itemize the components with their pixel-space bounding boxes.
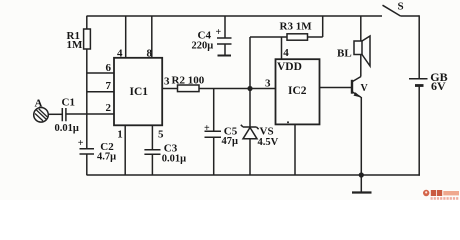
svg-text:R3 1M: R3 1M bbox=[280, 21, 313, 33]
speaker BL bbox=[354, 41, 362, 55]
logo watermark bbox=[423, 190, 459, 199]
svg-text:BL: BL bbox=[337, 48, 352, 60]
wire top rail bbox=[87, 15, 383, 17]
capacitor C3 bbox=[144, 150, 160, 155]
resistor R3 bbox=[287, 34, 308, 40]
wire IC1 pin4 bbox=[125, 16, 127, 58]
wire C5 top stub bbox=[213, 89, 215, 132]
wire zener branch vertical bbox=[249, 37, 251, 127]
wire emitter to ground rail bbox=[360, 97, 362, 175]
wire IC1 pin5 to C3 bbox=[151, 125, 153, 150]
wire speaker top to rail bbox=[360, 16, 362, 41]
IC U1 (IC1 box) bbox=[114, 58, 162, 126]
resistor R1 bbox=[84, 29, 91, 49]
svg-text:+: + bbox=[216, 27, 222, 38]
svg-text:5: 5 bbox=[158, 128, 164, 140]
wire R3 right to top rail bbox=[308, 16, 323, 37]
svg-text:VDD: VDD bbox=[277, 61, 302, 73]
svg-text:S: S bbox=[398, 1, 404, 13]
wire C4 top stub bbox=[224, 16, 226, 38]
svg-text:8: 8 bbox=[147, 47, 153, 59]
svg-text:IC1: IC1 bbox=[130, 86, 149, 98]
wire IC2 bottom pin to ground rail bbox=[294, 124, 296, 175]
switch S bbox=[383, 5, 420, 16]
svg-text:0.01μ: 0.01μ bbox=[55, 123, 79, 134]
wire IC1 pin8 bbox=[151, 16, 153, 58]
svg-text:6V: 6V bbox=[431, 79, 446, 93]
wire mic to C1 bbox=[49, 113, 62, 115]
microphone A bbox=[34, 108, 49, 123]
wire C2 bottom stub bbox=[86, 154, 88, 175]
node junction dot (R3/pin3) bbox=[247, 86, 252, 91]
wire C4 to ground symbol bbox=[224, 44, 226, 56]
battery GB plates bbox=[409, 78, 428, 80]
wire IC2 output to transistor base bbox=[320, 87, 353, 89]
wire IC1 pin1 to ground rail bbox=[124, 125, 126, 175]
svg-text:C1: C1 bbox=[62, 97, 75, 109]
wire right vertical (battery top) bbox=[418, 15, 420, 79]
wire R1 bottom bus to C2 bbox=[86, 49, 88, 149]
IC U2 (IC2 box) bbox=[276, 59, 320, 124]
ground (C4) bbox=[218, 55, 232, 57]
svg-text:47μ: 47μ bbox=[222, 136, 239, 147]
svg-text:1M: 1M bbox=[67, 39, 84, 51]
wire IC2 pin4 stub bbox=[281, 37, 283, 59]
capacitor C2 bbox=[80, 149, 95, 154]
wire IC1 pin3 to R2 bbox=[162, 88, 177, 90]
capacitor C1 bbox=[62, 108, 66, 121]
capacitor C5 bbox=[205, 131, 222, 137]
svg-text:+: + bbox=[78, 138, 84, 149]
ground (main) bbox=[360, 175, 362, 193]
svg-text:IC2: IC2 bbox=[288, 85, 307, 97]
wire IC1 pin6 stub bbox=[87, 72, 115, 74]
svg-text:4: 4 bbox=[283, 47, 289, 59]
svg-text:220μ: 220μ bbox=[192, 40, 214, 51]
svg-text:A: A bbox=[35, 98, 43, 110]
wire C1 to IC1 pin2 bbox=[66, 113, 114, 115]
wire node to R3 bbox=[250, 36, 287, 38]
wire bottom ground rail bbox=[87, 174, 420, 176]
svg-text:0.01μ: 0.01μ bbox=[162, 154, 186, 165]
svg-text:R2 100: R2 100 bbox=[172, 75, 205, 87]
capacitor C4 bbox=[217, 38, 232, 44]
svg-text:VS: VS bbox=[260, 126, 274, 138]
wire R2 to IC2 pin3 bbox=[199, 88, 276, 90]
wire C3 bottom stub bbox=[151, 154, 153, 175]
svg-text:2: 2 bbox=[106, 102, 112, 114]
node dot IC2 bottom bbox=[287, 121, 289, 123]
wire battery bottom to ground rail bbox=[418, 86, 420, 176]
emitter arrowhead bbox=[354, 92, 362, 97]
svg-text:6: 6 bbox=[106, 62, 112, 74]
svg-text:+: + bbox=[204, 123, 210, 134]
svg-text:V: V bbox=[361, 83, 369, 94]
node junction dot (emitter/ground) bbox=[359, 172, 364, 177]
wire IC1 pin7 stub bbox=[87, 91, 115, 93]
svg-text:7: 7 bbox=[106, 80, 112, 92]
wire R1 top stub bbox=[86, 16, 88, 29]
svg-text:3: 3 bbox=[164, 76, 170, 88]
wire VS bottom stub bbox=[249, 139, 251, 175]
wire C5 bottom stub bbox=[213, 137, 215, 175]
wire collector to speaker bbox=[360, 55, 362, 77]
diode VS zener bbox=[241, 125, 259, 129]
svg-text:4: 4 bbox=[117, 47, 123, 59]
svg-text:4.5V: 4.5V bbox=[258, 137, 279, 148]
svg-text:3: 3 bbox=[265, 77, 271, 89]
transistor Q1 (V) bbox=[351, 80, 353, 94]
svg-text:1: 1 bbox=[117, 128, 123, 140]
svg-text:4.7μ: 4.7μ bbox=[97, 151, 116, 162]
resistor R2 bbox=[178, 85, 200, 92]
